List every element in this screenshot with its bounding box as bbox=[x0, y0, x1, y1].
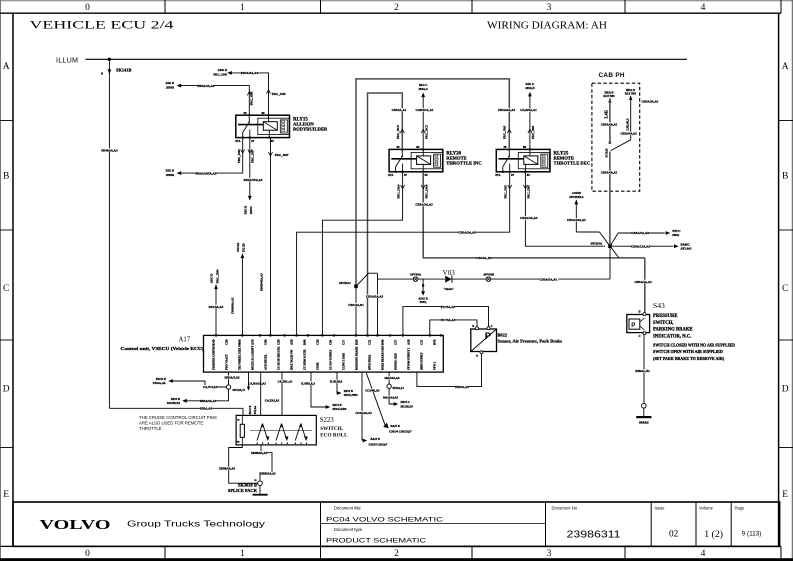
svg-text:FC73A,A3: FC73A,A3 bbox=[441, 318, 455, 322]
diode V03 bbox=[443, 269, 456, 291]
svg-text:(SET PARK BRAKE TO REMOVE AIR): (SET PARK BRAKE TO REMOVE AIR) bbox=[653, 356, 725, 361]
svg-text:FRC_J3C5: FRC_J3C5 bbox=[425, 125, 429, 139]
svg-text:X8DAL,B1: X8DAL,B1 bbox=[635, 369, 650, 373]
svg-text:TRI WHEEL SIZE SW: TRI WHEEL SIZE SW bbox=[239, 343, 242, 370]
svg-text:0: 0 bbox=[85, 549, 90, 559]
svg-text:SPOL/SB3: SPOL/SB3 bbox=[344, 393, 358, 397]
relay RLY15 bbox=[236, 114, 290, 138]
svg-text:PARKING BRAKE: PARKING BRAKE bbox=[653, 328, 693, 333]
svg-text:IDLE VALID SW: IDLE VALID SW bbox=[291, 349, 294, 370]
svg-text:86: 86 bbox=[262, 111, 266, 115]
svg-text:HB/3A,A3: HB/3A,A3 bbox=[455, 385, 469, 389]
wire B022 A to A17 bbox=[417, 354, 482, 389]
svg-text:FRC_J3C5: FRC_J3C5 bbox=[396, 125, 400, 139]
svg-text:SYW 2: SYW 2 bbox=[434, 361, 437, 370]
svg-text:A: A bbox=[3, 62, 10, 72]
pressure switch S43 bbox=[627, 258, 652, 338]
svg-text:WIRING DIAGRAM: AH: WIRING DIAGRAM: AH bbox=[487, 20, 607, 32]
svg-text:B: B bbox=[782, 171, 788, 181]
svg-text:PTO/ V3ACT: PTO/ V3ACT bbox=[226, 354, 229, 370]
svg-text:ATLA01: ATLA01 bbox=[681, 246, 693, 250]
wire A17 to S223 pin3 bbox=[278, 372, 293, 415]
relay RLY15 label bbox=[293, 117, 328, 131]
svg-text:Volume: Volume bbox=[699, 506, 714, 511]
svg-text:Issue: Issue bbox=[655, 506, 666, 511]
svg-text:CB3A/4A,A3: CB3A/4A,A3 bbox=[601, 122, 618, 126]
terminal HEAD RLY right bbox=[625, 88, 637, 100]
RLY26 pin labels bbox=[388, 145, 428, 177]
wire A17 diagonal to BA3B arrow bbox=[365, 372, 412, 434]
svg-text:VOLVO: VOLVO bbox=[40, 517, 111, 532]
svg-text:2B: 2B bbox=[237, 441, 240, 444]
svg-text:C2B: C2B bbox=[316, 339, 320, 345]
svg-text:SWITCH,: SWITCH, bbox=[320, 426, 343, 432]
svg-text:C: C bbox=[638, 335, 640, 338]
svg-text:BA/3 B: BA/3 B bbox=[371, 437, 380, 441]
switch S223 box bbox=[236, 415, 316, 445]
svg-text:Document title: Document title bbox=[334, 506, 361, 511]
switch SCR26 bbox=[604, 140, 630, 158]
svg-text:86: 86 bbox=[416, 145, 420, 149]
svg-text:CB3A/4A,A3: CB3A/4A,A3 bbox=[601, 171, 618, 175]
A17 pin stubs top bbox=[215, 334, 442, 336]
svg-text:Sensor, Air Pressure, Park Bra: Sensor, Air Pressure, Park Brake bbox=[498, 338, 563, 343]
relay RLY25 bbox=[496, 148, 550, 172]
svg-text:IL/SL95,8: IL/SL95,8 bbox=[330, 380, 343, 384]
svg-text:RIG B: RIG B bbox=[243, 206, 247, 214]
svg-text:FC73A,A3: FC73A,A3 bbox=[441, 305, 455, 309]
wire RLY25 pin87 to A17 via H2 bbox=[297, 172, 512, 336]
svg-text:L3E,4E,5: L3E,4E,5 bbox=[625, 118, 629, 131]
svg-text:FRC_J245: FRC_J245 bbox=[272, 92, 286, 96]
wire RLY26 pin87 to A17 via H bbox=[322, 172, 404, 336]
svg-text:CB3A/3A,A3: CB3A/3A,A3 bbox=[498, 108, 516, 112]
svg-text:X8DB/8A,A3: X8DB/8A,A3 bbox=[251, 451, 268, 455]
svg-text:PB3A/5TA,A3: PB3A/5TA,A3 bbox=[244, 178, 263, 182]
svg-text:C6B: C6B bbox=[264, 339, 268, 345]
svg-text:FRC_J307: FRC_J307 bbox=[251, 149, 255, 163]
stub CA NA arrow bbox=[247, 372, 267, 391]
wire CABPH left leg bbox=[601, 98, 618, 141]
svg-text:CA,B/5A,A1: CA,B/5A,A1 bbox=[520, 108, 537, 112]
svg-text:FQ 2B: FQ 2B bbox=[242, 243, 246, 251]
svg-text:85: 85 bbox=[425, 173, 429, 177]
svg-text:B6B: B6B bbox=[303, 339, 307, 345]
svg-text:FRC_J505: FRC_J505 bbox=[503, 185, 507, 199]
svg-text:CA,NA/3A,A3: CA,NA/3A,A3 bbox=[248, 381, 266, 385]
wire splice to DP4B arrow bbox=[167, 389, 229, 405]
note cruise control bbox=[139, 415, 217, 431]
wire junction diag to S43 feed bbox=[610, 246, 619, 258]
wire A17 to RF2B arrow lower bbox=[301, 372, 347, 411]
svg-text:PC04 VOLVO SCHEMATIC: PC04 VOLVO SCHEMATIC bbox=[326, 516, 443, 523]
svg-text:MC3E,36: MC3E,36 bbox=[401, 405, 414, 409]
svg-text:PB3A/3A,A3: PB3A/3A,A3 bbox=[198, 84, 215, 88]
splice SPV03A bbox=[410, 272, 422, 281]
svg-text:C17: C17 bbox=[342, 339, 346, 345]
wire RLY15 pin30 to RIG_B 2050D bbox=[166, 81, 254, 115]
svg-text:5B3A,A3: 5B3A,A3 bbox=[200, 406, 212, 410]
wire S223 pin5 to splice pack bbox=[251, 445, 276, 481]
svg-text:Group Trucks Technology: Group Trucks Technology bbox=[127, 519, 266, 528]
svg-text:C5B: C5B bbox=[277, 339, 281, 345]
S223 switch contacts bbox=[250, 424, 312, 445]
svg-text:1 (2): 1 (2) bbox=[704, 529, 723, 540]
svg-text:STARTER CONTROL: STARTER CONTROL bbox=[213, 343, 216, 370]
wire FC73 upper to B022 C bbox=[403, 305, 489, 336]
svg-text:CB3A/10A,A3: CB3A/10A,A3 bbox=[567, 218, 586, 222]
svg-text:SYW/M SUPPLY 2: SYW/M SUPPLY 2 bbox=[408, 347, 411, 370]
svg-text:2: 2 bbox=[394, 3, 399, 13]
svg-text:PARK BRAKE GRD: PARK BRAKE GRD bbox=[382, 346, 385, 370]
svg-text:P: P bbox=[485, 331, 492, 342]
wire CABPH right leg bbox=[620, 96, 637, 140]
svg-text:2050D: 2050D bbox=[166, 86, 175, 90]
svg-text:INDICATOR, N.C.: INDICATOR, N.C. bbox=[653, 334, 691, 339]
svg-text:SCR26: SCR26 bbox=[604, 148, 608, 158]
svg-text:87: 87 bbox=[404, 173, 408, 177]
svg-text:VEHICLE ECU 2/4: VEHICLE ECU 2/4 bbox=[30, 20, 175, 32]
svg-text:CAB PH: CAB PH bbox=[599, 72, 625, 79]
svg-text:C30J/4 202Q/7: C30J/4 202Q/7 bbox=[369, 443, 388, 447]
RLY15 pin labels bbox=[235, 111, 274, 143]
svg-text:Document No: Document No bbox=[552, 506, 578, 511]
wire ILLUM drop to S223 bbox=[108, 59, 110, 408]
terminal C040D SPCB bbox=[567, 191, 610, 246]
svg-text:2: 2 bbox=[394, 549, 399, 559]
svg-text:CB3A/21A,A3: CB3A/21A,A3 bbox=[631, 244, 650, 248]
svg-text:CC3A/4A,A3: CC3A/4A,A3 bbox=[355, 411, 372, 415]
svg-text:D: D bbox=[3, 384, 10, 394]
svg-text:A7B: A7B bbox=[251, 339, 255, 345]
svg-text:CB3A/4A,A3: CB3A/4A,A3 bbox=[620, 132, 637, 136]
svg-text:RIG B: RIG B bbox=[166, 169, 174, 173]
svg-text:SPLICE PACK: SPLICE PACK bbox=[228, 488, 258, 493]
svg-text:FRC_J245: FRC_J245 bbox=[213, 72, 227, 76]
wire A17 pin C4B to terminal ADG D bbox=[209, 269, 224, 335]
wire splice to DP4C arrow bbox=[383, 388, 413, 408]
svg-text:SPC3A,17: SPC3A,17 bbox=[233, 388, 246, 392]
splice SPV03B bbox=[483, 272, 494, 281]
wire RLY25 pin86 terminal RIG_C bbox=[520, 82, 537, 149]
svg-text:CB3AL,A1: CB3AL,A1 bbox=[392, 108, 407, 112]
svg-text:CC SE M/ DECCEL: CC SE M/ DECCEL bbox=[278, 346, 281, 370]
wire S43 to spare bbox=[635, 335, 651, 425]
wire RLY26 pin85 to S43 (gray run) bbox=[415, 172, 644, 260]
svg-text:SIGNAL GRD: SIGNAL GRD bbox=[395, 353, 398, 370]
relay RLY26 bbox=[389, 148, 443, 172]
svg-text:FRC_J364: FRC_J364 bbox=[215, 269, 219, 283]
svg-text:2030D: 2030D bbox=[166, 173, 175, 177]
svg-text:FRC_J847: FRC_J847 bbox=[275, 153, 289, 157]
junction X SPCB bbox=[608, 244, 612, 248]
svg-text:2/8GA,AL: 2/8GA,AL bbox=[153, 381, 166, 385]
svg-text:THROTTLE INC: THROTTLE INC bbox=[446, 161, 481, 166]
junction SK141B bbox=[108, 58, 111, 61]
wire RLY15 pin87 to RIG_B 2030C bbox=[243, 138, 263, 215]
svg-text:"diode": "diode" bbox=[444, 287, 455, 291]
svg-text:S43: S43 bbox=[653, 301, 665, 310]
svg-text:S223: S223 bbox=[320, 417, 335, 424]
svg-text:CB3A/5A,A3: CB3A/5A,A3 bbox=[366, 294, 384, 298]
svg-text:4: 4 bbox=[701, 3, 706, 13]
svg-text:L4E: L4E bbox=[603, 110, 608, 118]
svg-text:503Q: 503Q bbox=[420, 300, 428, 304]
column numbers top bbox=[85, 3, 706, 13]
svg-text:203A,C: 203A,C bbox=[418, 87, 428, 91]
svg-text:V03: V03 bbox=[443, 269, 456, 277]
svg-text:30: 30 bbox=[397, 145, 401, 149]
svg-text:X8DB/5A,A3: X8DB/5A,A3 bbox=[219, 467, 236, 471]
svg-text:ARE ALSO USED FOR REMOTE: ARE ALSO USED FOR REMOTE bbox=[139, 421, 203, 426]
svg-text:87: 87 bbox=[511, 173, 514, 177]
wire RLY25 pin85 to junction bbox=[520, 172, 605, 246]
svg-text:DP/4 C: DP/4 C bbox=[401, 400, 410, 404]
junction SPCB splice 2 bbox=[339, 281, 364, 335]
svg-text:FRC3A,A3: FRC3A,A3 bbox=[209, 305, 224, 309]
svg-text:SPCB/A1: SPCB/A1 bbox=[339, 281, 351, 285]
svg-text:RLY B05: RLY B05 bbox=[603, 94, 615, 98]
svg-text:CC SW/ SUPPLY: CC SW/ SUPPLY bbox=[330, 350, 333, 370]
svg-text:9 (113): 9 (113) bbox=[742, 531, 762, 538]
svg-text:B4B: B4B bbox=[381, 339, 385, 345]
splice pack SK303F bbox=[228, 479, 268, 495]
svg-text:B7B: B7B bbox=[433, 339, 437, 345]
svg-text:C09: C09 bbox=[329, 339, 333, 345]
svg-text:Document type: Document type bbox=[334, 527, 363, 532]
svg-text:87A: 87A bbox=[235, 139, 241, 143]
S223 labels bbox=[320, 417, 348, 439]
wire junction to FNI C arrow bbox=[610, 229, 680, 246]
stub ADG B terminal bbox=[418, 279, 427, 304]
B022 labels bbox=[498, 332, 563, 343]
svg-text:BODYBUILDER: BODYBUILDER bbox=[293, 126, 328, 131]
svg-text:THROTTLE DEC: THROTTLE DEC bbox=[554, 161, 591, 166]
svg-text:02: 02 bbox=[669, 529, 679, 539]
svg-text:23986311: 23986311 bbox=[567, 530, 622, 541]
svg-text:SPTO FREQ: SPTO FREQ bbox=[369, 355, 372, 370]
wire A17 to S223 pin2 bbox=[249, 372, 280, 415]
wire RLY25 pin30 to splice SPCB (gray run) bbox=[356, 79, 516, 286]
svg-text:203A,E: 203A,E bbox=[525, 86, 534, 90]
svg-text:FRC_J505: FRC_J505 bbox=[503, 125, 507, 139]
wire A17 pin A6B to terminal SW4A bbox=[236, 242, 246, 336]
svg-text:3: 3 bbox=[547, 549, 552, 559]
svg-text:FRC_J505: FRC_J505 bbox=[531, 125, 535, 139]
CAB PH enclosure bbox=[592, 83, 640, 191]
RLY25 pin labels bbox=[495, 145, 530, 177]
svg-text:SK303F B: SK303F B bbox=[238, 482, 257, 487]
relay RLY26 label bbox=[446, 152, 481, 166]
svg-text:E: E bbox=[782, 490, 788, 500]
wire A17 to RF2B arrow upper bbox=[330, 372, 359, 397]
svg-text:CC3/4R,A3: CC3/4R,A3 bbox=[365, 389, 380, 393]
svg-text:SPOL/SB3: SPOL/SB3 bbox=[333, 407, 347, 411]
svg-text:PRESSURE: PRESSURE bbox=[653, 314, 678, 319]
svg-text:C30J/4 C30J2Q/7: C30J/4 C30J2Q/7 bbox=[389, 430, 412, 434]
svg-text:A3B: A3B bbox=[290, 339, 294, 345]
svg-text:B2B: B2B bbox=[355, 339, 359, 345]
svg-text:MA/3A3,A3: MA/3A3,A3 bbox=[385, 376, 400, 380]
svg-text:B022: B022 bbox=[498, 332, 508, 337]
svg-text:C27: C27 bbox=[394, 339, 398, 345]
column numbers bottom bbox=[85, 549, 706, 559]
svg-text:FRC_J505: FRC_J505 bbox=[527, 185, 531, 199]
svg-text:Control unit, V3ECU (Vehicle E: Control unit, V3ECU (Vehicle ECU) bbox=[121, 346, 205, 351]
svg-text:CB3A/2A,A3: CB3A/2A,A3 bbox=[634, 280, 652, 284]
svg-text:87A: 87A bbox=[388, 173, 394, 177]
svg-text:87A: 87A bbox=[495, 173, 501, 177]
svg-text:C: C bbox=[782, 284, 788, 294]
svg-text:SK141B: SK141B bbox=[116, 68, 131, 73]
svg-text:FRC_J306: FRC_J306 bbox=[237, 149, 241, 163]
svg-text:C/DIR: C/DIR bbox=[317, 362, 320, 370]
svg-text:PB3A/3ATA,A3: PB3A/3ATA,A3 bbox=[196, 171, 217, 175]
svg-text:SPARE: SPARE bbox=[639, 421, 649, 425]
svg-text:SWITCH,: SWITCH, bbox=[653, 321, 673, 326]
svg-text:FRC_J3A4: FRC_J3A4 bbox=[396, 184, 400, 198]
svg-text:3: 3 bbox=[547, 3, 552, 13]
svg-text:C23: C23 bbox=[368, 339, 372, 345]
wire A17 to BA3B arrow vertical bbox=[355, 372, 388, 447]
svg-text:CB3A/3A,A3: CB3A/3A,A3 bbox=[642, 100, 659, 104]
svg-text:ILLUM: ILLUM bbox=[56, 55, 78, 64]
svg-text:87: 87 bbox=[251, 139, 255, 143]
svg-text:CA,TAL,A1: CA,TAL,A1 bbox=[278, 380, 293, 384]
svg-text:CA,7C3,A3: CA,7C3,A3 bbox=[203, 385, 218, 389]
svg-text:SP/4A,13: SP/4A,13 bbox=[393, 386, 405, 390]
svg-text:B: B bbox=[3, 171, 9, 181]
svg-text:SPCB/A1: SPCB/A1 bbox=[591, 241, 603, 245]
svg-text:CB3A/3A,A3: CB3A/3A,A3 bbox=[458, 230, 476, 234]
svg-text:MC3E/A3: MC3E/A3 bbox=[167, 401, 180, 405]
svg-text:A17: A17 bbox=[179, 336, 191, 343]
svg-text:301,3A: 301,3A bbox=[254, 406, 257, 414]
svg-text:Page: Page bbox=[735, 506, 745, 511]
splice SP4A13 bbox=[385, 372, 405, 390]
svg-text:1: 1 bbox=[240, 549, 245, 559]
wire ILLUM horizontal bbox=[86, 58, 688, 60]
wire splice to B342E arrow bbox=[153, 377, 227, 389]
svg-text:SPCB/B1A: SPCB/B1A bbox=[569, 195, 584, 199]
svg-text:0: 0 bbox=[85, 3, 90, 13]
svg-text:85: 85 bbox=[527, 173, 531, 177]
svg-text:C3B: C3B bbox=[225, 339, 229, 345]
svg-text:ECO B: ECO B bbox=[249, 405, 252, 414]
svg-text:SBDA/3,A3: SBDA/3,A3 bbox=[224, 376, 240, 380]
svg-text:PB48/3A,A3: PB48/3A,A3 bbox=[101, 148, 118, 152]
wire RLY26 pin30 to A17 (gray run) bbox=[368, 93, 407, 335]
svg-text:CC SEM/ ACCEL: CC SEM/ ACCEL bbox=[304, 349, 307, 370]
svg-text:1: 1 bbox=[240, 3, 245, 13]
svg-text:PB3A/3A,A3: PB3A/3A,A3 bbox=[241, 71, 258, 75]
ECU A17 box bbox=[204, 335, 444, 372]
svg-text:MULTI AL L/SHIFT: MULTI AL L/SHIFT bbox=[252, 346, 255, 370]
svg-text:SPV03A: SPV03A bbox=[410, 272, 422, 276]
svg-text:4: 4 bbox=[701, 549, 706, 559]
svg-text:D: D bbox=[782, 384, 789, 394]
svg-text:THE CRUISE CONTROL CIRCUIT PIN: THE CRUISE CONTROL CIRCUIT PINS bbox=[139, 415, 217, 420]
wire S223 pin2B to splice pack bbox=[219, 445, 258, 483]
svg-text:CA,TA2,A3: CA,TA2,A3 bbox=[265, 398, 280, 402]
connector B arrowhead bbox=[108, 69, 112, 74]
svg-text:C9/M43A,A3: C9/M43A,A3 bbox=[231, 297, 235, 314]
wire RLY26 pin86 terminal RIG_C bbox=[416, 83, 434, 150]
svg-text:C: C bbox=[3, 284, 9, 294]
svg-text:THROTTLE: THROTTLE bbox=[139, 426, 162, 431]
svg-text:P: P bbox=[631, 323, 635, 329]
title block bbox=[13, 502, 780, 546]
wire junction to BAMC arrow bbox=[610, 242, 692, 250]
svg-text:E: E bbox=[3, 490, 9, 500]
wire CABPH to junction (gray) bbox=[601, 152, 618, 247]
wire RLY15 pin86 to ADG_B bbox=[213, 68, 286, 115]
terminal HEAD RLY left bbox=[603, 91, 615, 103]
svg-text:CB3A/3A,A3: CB3A/3A,A3 bbox=[520, 216, 538, 220]
svg-text:BA/3 B: BA/3 B bbox=[391, 424, 400, 428]
svg-text:CC/PO 2 GRD: CC/PO 2 GRD bbox=[343, 353, 346, 370]
svg-text:FRC_J245: FRC_J245 bbox=[249, 91, 253, 105]
diode V03 row bbox=[378, 246, 611, 279]
svg-text:606Q: 606Q bbox=[672, 233, 680, 237]
sensor B022 bbox=[471, 325, 497, 357]
wire RLY15 pin85 to A17 bbox=[259, 138, 289, 336]
svg-text:X8DB/3A,A3: X8DB/3A,A3 bbox=[259, 472, 276, 476]
svg-text:SWITCH CLOSED WITH NO AIR SUPP: SWITCH CLOSED WITH NO AIR SUPPLIED bbox=[653, 342, 735, 347]
svg-text:IL/SB3,A,3: IL/SB3,A,3 bbox=[301, 381, 315, 385]
wire RLY15 pin87A to RIG_B 2030D bbox=[166, 138, 245, 178]
svg-text:B: B bbox=[101, 73, 103, 76]
svg-text:RIG B: RIG B bbox=[166, 81, 174, 85]
svg-text:ADG D: ADG D bbox=[210, 273, 214, 283]
svg-text:ECO ROLL: ECO ROLL bbox=[320, 433, 348, 439]
svg-text:SENS SUPPLY: SENS SUPPLY bbox=[421, 352, 424, 370]
svg-text:CB3A/3A,A3 .: CB3A/3A,A3 . bbox=[540, 277, 559, 281]
row letters bbox=[3, 62, 789, 500]
svg-text:CB3A/3A,A3: CB3A/3A,A3 bbox=[415, 203, 433, 207]
svg-text:CB/C2A,B1: CB/C2A,B1 bbox=[348, 303, 364, 307]
svg-text:PB3B/45A,A3: PB3B/45A,A3 bbox=[259, 273, 263, 291]
svg-text:SPV03B: SPV03B bbox=[483, 272, 494, 276]
svg-text:A2B: A2B bbox=[407, 339, 411, 345]
S43 labels bbox=[653, 301, 735, 361]
svg-text:A: A bbox=[782, 62, 789, 72]
resistor in S223 bbox=[237, 415, 245, 445]
svg-text:RLY B05: RLY B05 bbox=[625, 92, 637, 96]
splice SPCBA7 bbox=[224, 372, 245, 392]
svg-text:CB3A/3A,A3: CB3A/3A,A3 bbox=[631, 231, 649, 235]
svg-text:PARK/ING BRAKE: PARK/ING BRAKE bbox=[356, 346, 359, 370]
svg-text:2030C: 2030C bbox=[249, 206, 253, 214]
svg-text:30: 30 bbox=[244, 111, 248, 115]
wire junction2 to V03 branch bbox=[356, 273, 384, 335]
svg-text:B: B bbox=[472, 325, 474, 328]
svg-text:30: 30 bbox=[504, 145, 508, 149]
A17 pin name columns bbox=[212, 339, 437, 370]
svg-text:CAB/SCL,A1: CAB/SCL,A1 bbox=[416, 108, 434, 112]
svg-text:86: 86 bbox=[523, 145, 527, 149]
svg-text:FRC_J3A4: FRC_J3A4 bbox=[425, 184, 429, 198]
wire FC73 lower to B022 B bbox=[430, 318, 477, 335]
svg-text:C15: C15 bbox=[420, 339, 424, 345]
svg-text:A: A bbox=[476, 355, 478, 358]
svg-text:SBDA/3A,A3: SBDA/3A,A3 bbox=[200, 399, 217, 403]
relay RLY25 label bbox=[554, 152, 591, 166]
svg-text:85: 85 bbox=[271, 139, 275, 143]
svg-text:SW/4A: SW/4A bbox=[236, 242, 240, 252]
svg-text:D: D bbox=[638, 310, 640, 313]
svg-text:MA/3A4,A3: MA/3A4,A3 bbox=[383, 396, 398, 400]
